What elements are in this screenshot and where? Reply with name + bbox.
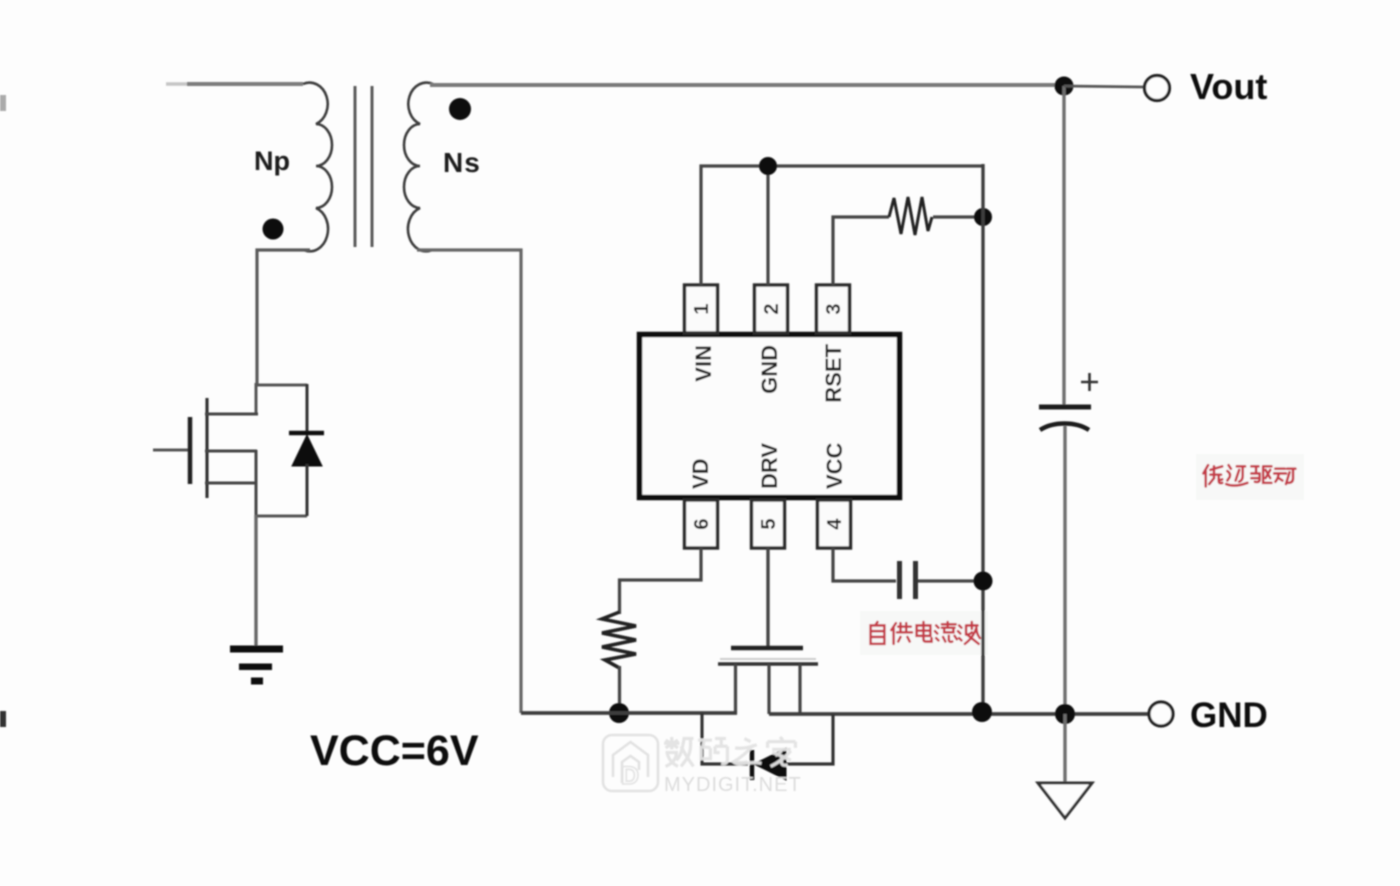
junction dot Vout — [1055, 77, 1074, 96]
tint box behind red annotation 2 — [860, 611, 988, 655]
wire Vout rail down — [1062, 86, 1065, 406]
wire pin2 up — [766, 166, 769, 285]
MOSFET Q2 drain stub — [798, 664, 801, 714]
body diode D1 anode wire — [306, 464, 309, 516]
junction dot R1/rail — [974, 208, 992, 226]
body diode D2 loop left — [702, 713, 748, 764]
svg-text:VD: VD — [688, 458, 713, 489]
red annotation: self-supply filter (自供电滤波) — [871, 622, 980, 644]
wire Np bottom lead — [257, 250, 310, 385]
capacitor C2 top plate — [1039, 405, 1091, 410]
wire Q1 source down — [254, 515, 257, 646]
wire pin1 up — [701, 166, 983, 285]
junction dot R2/rail — [609, 703, 629, 723]
MOSFET Q2 channel bar — [718, 662, 818, 665]
svg-text:Np: Np — [254, 146, 290, 176]
bottom rail left segment — [521, 711, 737, 715]
MOSFET Q2 gate bar — [731, 646, 803, 651]
svg-text:RSET: RSET — [821, 343, 846, 402]
body diode D1 triangle — [292, 435, 322, 466]
wire pin5 down (DRV) — [766, 548, 769, 648]
wire pin3 up — [833, 217, 889, 285]
junction dot rail/right vertical — [972, 702, 992, 722]
svg-text:GND: GND — [757, 345, 782, 394]
body diode D2 loop right — [786, 714, 833, 764]
wire Ns bottom lead — [417, 250, 521, 713]
capacitor C2 plus sign — [1081, 373, 1098, 391]
wire R2 to rail — [618, 666, 621, 713]
MOSFET Q1 source stub — [255, 450, 258, 517]
MOSFET Q1 gate lead — [153, 449, 190, 452]
wire to GND triangle — [1063, 714, 1066, 783]
transformer T1 primary winding Np — [303, 83, 332, 252]
edge artifact top-left — [0, 95, 6, 111]
capacitor C2 bottom plate (curved) — [1040, 424, 1089, 431]
MOSFET Q1 drain wire — [257, 384, 307, 387]
wire primary top — [187, 82, 303, 86]
svg-text:Ns: Ns — [443, 147, 481, 178]
tint box behind red annotation 1 — [1196, 454, 1304, 500]
polarity dot Np — [263, 219, 284, 240]
transformer T1 secondary winding Ns — [404, 83, 433, 252]
MOSFET Q2 channel halo — [720, 658, 816, 660]
watermark logo box — [603, 735, 658, 791]
body diode D2 cathode bar — [750, 750, 755, 780]
wire right vertical rail — [981, 164, 984, 712]
svg-text:D: D — [621, 762, 639, 790]
wire pin6 down — [620, 548, 702, 614]
svg-text:GND: GND — [1190, 696, 1268, 735]
svg-text:Vout: Vout — [1190, 66, 1267, 107]
svg-text:1: 1 — [691, 303, 713, 314]
svg-text:MYDIGIT.NET: MYDIGIT.NET — [664, 774, 802, 796]
polarity dot Ns — [449, 98, 471, 120]
wire Vout to terminal — [1064, 86, 1144, 87]
body diode D1 cathode bar — [289, 431, 324, 436]
wire secondary top to Vout — [430, 83, 1064, 87]
capacitor C1 plate right — [913, 561, 918, 599]
svg-text:4: 4 — [824, 518, 846, 530]
pin 2 box — [755, 285, 788, 333]
pin 3 box — [817, 285, 850, 333]
bottom rail right segment — [769, 712, 1148, 716]
pin 4 box — [818, 500, 851, 548]
wire pin4 down (VCC) — [833, 548, 896, 581]
ground symbol primary — [230, 646, 283, 653]
transformer core — [354, 86, 357, 247]
svg-text:VCC=6V: VCC=6V — [310, 727, 479, 775]
wire R1 to rail — [933, 215, 983, 218]
edge artifact bottom-left — [0, 711, 6, 727]
pin 5 box — [752, 500, 785, 548]
body diode D1 cathode wire — [306, 384, 309, 434]
MOSFET Q1 body contact — [205, 450, 257, 453]
terminal circle GND — [1149, 702, 1173, 726]
svg-text:DRV: DRV — [757, 443, 782, 489]
wire primary top faint tail — [166, 82, 190, 85]
junction dot pins1-2 — [759, 157, 777, 175]
wire C2 down to rail — [1063, 426, 1066, 714]
svg-text:6: 6 — [691, 518, 713, 529]
svg-text:5: 5 — [758, 518, 780, 529]
junction dot GND rail — [1055, 704, 1075, 724]
MOSFET Q1 channel bar — [205, 398, 208, 498]
MOSFET Q2 body stub — [767, 664, 770, 714]
svg-text:VCC: VCC — [822, 442, 847, 489]
terminal circle Vout — [1145, 76, 1170, 101]
MOSFET Q1 drain contact — [205, 413, 258, 416]
body diode D2 triangle — [754, 748, 786, 780]
pin 6 box — [685, 500, 718, 548]
svg-text:VIN: VIN — [691, 345, 716, 382]
pin 1 box — [685, 285, 718, 333]
watermark text 数码之家 — [664, 737, 795, 766]
MOSFET Q1 source contact — [205, 482, 257, 485]
svg-text:2: 2 — [761, 303, 783, 314]
wire Q1 source to diode — [255, 515, 307, 518]
red annotation: low-side drive (低边驱动) — [1203, 465, 1295, 486]
svg-text:3: 3 — [823, 303, 845, 314]
capacitor C1 plate left — [897, 561, 902, 599]
resistor R1 (RSET) — [889, 197, 932, 235]
resistor R2 — [602, 612, 636, 668]
wire C1 to rail — [918, 579, 983, 582]
ground triangle — [1038, 783, 1092, 818]
MOSFET Q2 source stub — [734, 664, 737, 714]
junction dot C1/rail — [974, 572, 993, 591]
MOSFET Q1 gate bar — [188, 417, 193, 484]
IC U1 body — [640, 335, 900, 498]
